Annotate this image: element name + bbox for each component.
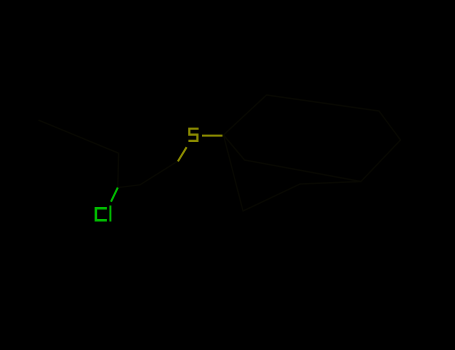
- bond S to ring carbon (sulfur colored): [202, 135, 223, 137]
- bond Cl to C2 (chlorine colored): [111, 188, 118, 202]
- atom label Cl: C: [96, 208, 107, 220]
- wire: left chain C5-C4 bond (dark skeleton): [39, 120, 119, 153]
- wire: C2-C3 bond: [118, 185, 140, 188]
- atom label S: [188, 129, 198, 141]
- ring: two-carbon bridge: [224, 135, 362, 211]
- wire: C3-C1 bond: [140, 161, 178, 185]
- ring: bicyclooctane outer hexagon: [224, 95, 401, 182]
- atom label Cl: l: [109, 206, 111, 222]
- wire: C4-C2 bond: [117, 153, 120, 187]
- bond S to C1 (sulfur colored): [178, 147, 187, 161]
